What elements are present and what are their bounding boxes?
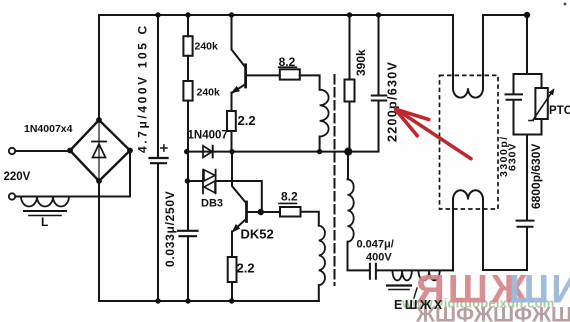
svg-text:400V: 400V [366,252,392,264]
svg-text:0.033μ/250V: 0.033μ/250V [163,191,177,267]
svg-text:DB3: DB3 [201,198,223,210]
svg-text:240k: 240k [197,87,221,99]
svg-text:630V: 630V [507,142,519,171]
svg-text:6800p/630V: 6800p/630V [529,144,543,209]
svg-text:1N4007x4: 1N4007x4 [24,123,73,135]
svg-text:8.2: 8.2 [281,189,298,203]
svg-text:2.2: 2.2 [237,261,255,276]
svg-text:390k: 390k [354,49,368,76]
svg-text:4.7μ/400V 105 C: 4.7μ/400V 105 C [136,23,150,153]
svg-text:240k: 240k [195,41,219,53]
svg-text:DK52: DK52 [241,227,274,242]
svg-text:2.2: 2.2 [238,113,256,128]
svg-text:220V: 220V [4,171,31,183]
svg-text:2200p/630V: 2200p/630V [386,61,400,142]
svg-text:1N4007: 1N4007 [188,130,228,142]
svg-text:PTC: PTC [549,105,570,117]
svg-text:EШЖХ: EШЖХ [394,298,445,312]
svg-text:0.047μ/: 0.047μ/ [357,239,394,251]
svg-text:L: L [41,215,48,229]
svg-text:8.2: 8.2 [279,55,296,69]
